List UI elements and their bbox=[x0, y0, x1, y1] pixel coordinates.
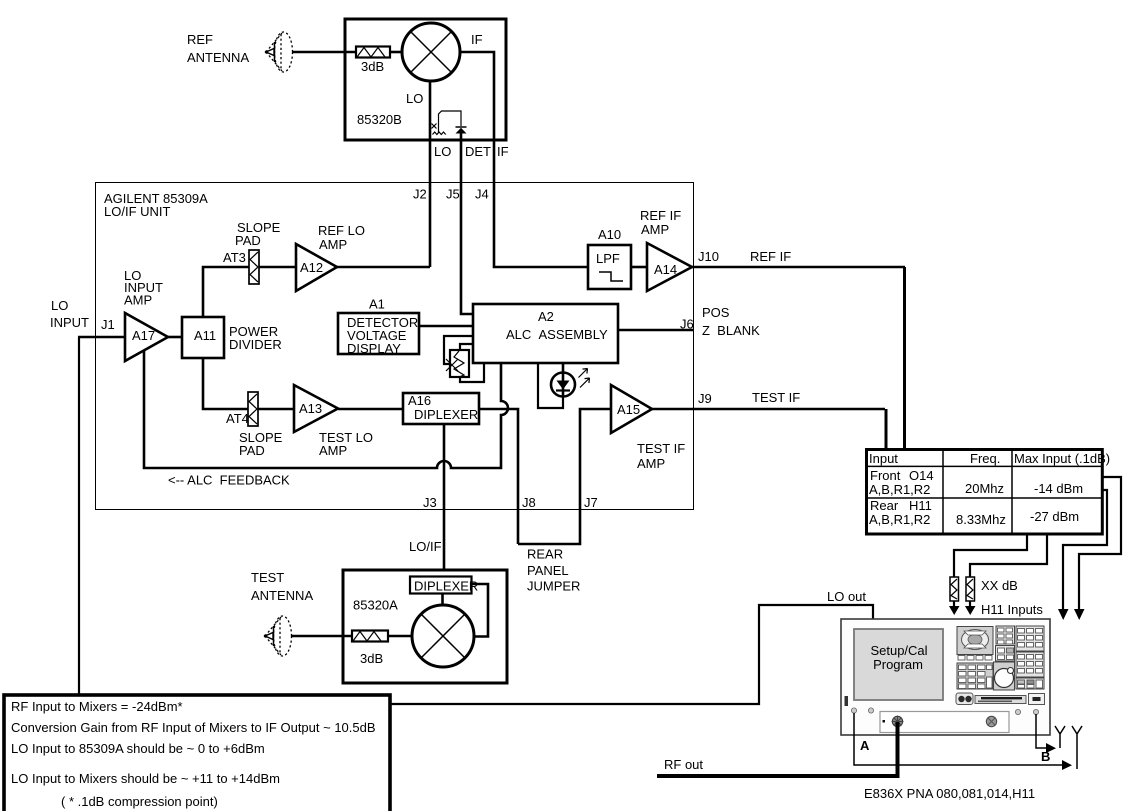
svg-text:TEST: TEST bbox=[251, 570, 284, 585]
label J8 bbox=[522, 495, 536, 510]
antenna TEST bbox=[264, 616, 292, 656]
svg-text:RF out: RF out bbox=[664, 757, 703, 772]
svg-text:REF IF: REF IF bbox=[640, 208, 681, 223]
wire A10 to A14 bbox=[631, 266, 647, 269]
attenuator AT3 slope pad bbox=[249, 250, 259, 284]
label LO/IF bbox=[409, 539, 442, 554]
wire A11 top to AT3 row bbox=[203, 267, 249, 317]
wire AT3 to A12 bbox=[259, 266, 297, 269]
label ALC FEEDBACK bbox=[168, 473, 290, 488]
wire diplexer to mixer (85320A) bbox=[441, 594, 444, 607]
svg-text:LO: LO bbox=[51, 298, 68, 313]
svg-text:REF LO: REF LO bbox=[318, 223, 365, 238]
svg-text:ANTENNA: ANTENNA bbox=[251, 588, 313, 603]
svg-text:PAD: PAD bbox=[235, 233, 261, 248]
svg-text:LO: LO bbox=[406, 91, 423, 106]
wire RF out thick from A port bbox=[657, 722, 898, 776]
svg-text:3dB: 3dB bbox=[360, 651, 383, 666]
wire table right edge upper loop bbox=[1079, 477, 1121, 610]
svg-text:ALC ASSEMBLY: ALC ASSEMBLY bbox=[506, 327, 608, 342]
svg-text:DET: DET bbox=[465, 144, 491, 159]
label E836X PNA options bbox=[864, 786, 1035, 801]
wire TEST IF vertical to table top bbox=[885, 409, 888, 450]
label XX dB bbox=[981, 578, 1018, 593]
svg-text:RF Input to Mixers = -24dBm*: RF Input to Mixers = -24dBm* bbox=[11, 699, 183, 714]
wire REF antenna to 3dB pad bbox=[292, 51, 356, 54]
svg-text:LO Input to Mixers should be ~: LO Input to Mixers should be ~ +11 to +1… bbox=[11, 771, 280, 786]
antenna REF bbox=[265, 32, 293, 72]
wire A11 bottom to AT4 row bbox=[203, 358, 248, 409]
wire REF IF vertical to table top bbox=[903, 267, 906, 450]
svg-text:DIPLEXER: DIPLEXER bbox=[414, 579, 478, 594]
wire J6 pos z blank bbox=[618, 329, 694, 332]
label H11 Inputs bbox=[981, 602, 1043, 617]
svg-text:85320A: 85320A bbox=[353, 598, 398, 613]
svg-text:DIPLEXER: DIPLEXER bbox=[414, 407, 478, 422]
svg-text:A1: A1 bbox=[369, 297, 385, 312]
wire table to right XX dB attenuator bbox=[970, 535, 1047, 577]
wire A2 left to thermistor bbox=[460, 344, 473, 350]
box A10 LPF bbox=[588, 245, 631, 289]
wire A2 bottom LED loop bbox=[538, 363, 563, 408]
label POWER DIVIDER bbox=[229, 324, 282, 352]
svg-text:AMP: AMP bbox=[641, 222, 669, 237]
wire J3 from A16 bottom to 85320A diplexer bbox=[443, 424, 446, 579]
wire 3dB pad to mixer bbox=[390, 51, 403, 54]
wire A12 output to J2 bbox=[334, 266, 430, 269]
svg-text:PANEL: PANEL bbox=[527, 563, 569, 578]
svg-text:( * .1dB compression point): ( * .1dB compression point) bbox=[61, 794, 218, 809]
wire TEST IF output to table bbox=[652, 408, 885, 411]
svg-text:INPUT: INPUT bbox=[50, 315, 89, 330]
svg-text:Z BLANK: Z BLANK bbox=[702, 323, 760, 338]
svg-text:J4: J4 bbox=[475, 187, 489, 202]
arrow down right inner bbox=[1058, 609, 1069, 620]
label POS Z BLANK bbox=[702, 305, 760, 338]
svg-text:A10: A10 bbox=[598, 227, 621, 242]
wire A17 to A11 bbox=[168, 336, 182, 339]
box A11 power divider bbox=[182, 317, 224, 358]
wire J2 LO vertical from mixer to A12 output row bbox=[429, 81, 432, 267]
label 3dB (test) bbox=[360, 651, 383, 666]
op-amp A12 ref LO amp bbox=[296, 244, 337, 291]
wire AT4 to A13 bbox=[258, 408, 294, 411]
svg-text:A: A bbox=[860, 738, 870, 753]
svg-text:IF: IF bbox=[497, 144, 509, 159]
svg-text:LO/IF UNIT: LO/IF UNIT bbox=[104, 204, 171, 219]
svg-text:IF: IF bbox=[471, 32, 483, 47]
wire TEST antenna to 3dB pad bbox=[291, 635, 352, 638]
svg-text:J5: J5 bbox=[446, 187, 460, 202]
svg-text:REAR: REAR bbox=[527, 547, 563, 562]
svg-text:A,B,R1,R2: A,B,R1,R2 bbox=[869, 482, 930, 497]
box 85320B ref mixer module bbox=[345, 19, 506, 140]
svg-text:J6: J6 bbox=[680, 317, 694, 332]
wire LO out path from PNA to J1 input bbox=[79, 337, 873, 704]
svg-text:Max Input (.1dB): Max Input (.1dB) bbox=[1014, 451, 1110, 466]
detector in 85320B bbox=[432, 111, 467, 135]
wire LED top stem bbox=[562, 363, 565, 396]
svg-text:85320B: 85320B bbox=[357, 112, 402, 127]
svg-text:LO/IF: LO/IF bbox=[409, 539, 442, 554]
arrow left attenuator down bbox=[949, 601, 960, 615]
label J10 bbox=[698, 249, 719, 264]
wire ALC feedback from A2 bottom to A17 bbox=[144, 351, 508, 468]
label A1 bbox=[369, 297, 385, 312]
svg-text:J3: J3 bbox=[423, 495, 437, 510]
wire A16 output to J8 corner bbox=[479, 409, 518, 544]
wire table to left XX dB attenuator bbox=[954, 535, 1027, 577]
wire J5 DET vertical from detector to A2 bbox=[461, 133, 473, 314]
svg-text:Conversion Gain from RF Input: Conversion Gain from RF Input of Mixers … bbox=[11, 720, 376, 735]
svg-text:LPF: LPF bbox=[596, 251, 620, 266]
svg-text:A2: A2 bbox=[538, 309, 554, 324]
attenuator AT4 slope pad bbox=[248, 392, 258, 426]
label LO INPUT AMP bbox=[124, 268, 163, 308]
svg-text:Setup/Cal: Setup/Cal bbox=[870, 643, 927, 658]
label LO (mixer) bbox=[406, 91, 423, 106]
svg-text:-14 dBm: -14 dBm bbox=[1034, 481, 1083, 496]
antenna small Y (A) bbox=[1072, 726, 1082, 769]
svg-text:TEST IF: TEST IF bbox=[752, 390, 800, 405]
svg-text:3dB: 3dB bbox=[361, 59, 384, 74]
wire rear panel jumper bottom bbox=[518, 409, 611, 544]
label J2 J5 J4 bbox=[413, 187, 489, 202]
attenuator 3dB (ref) bbox=[356, 47, 390, 58]
box DIPLEXER in 85320A bbox=[410, 577, 478, 594]
wire 3dB to mixer (85320A) bbox=[388, 635, 412, 638]
label J1 bbox=[101, 317, 115, 332]
svg-text:Rear: Rear bbox=[870, 498, 899, 513]
label AT3 bbox=[223, 250, 246, 265]
wire A receiver line to antenna arrow bbox=[854, 713, 1072, 770]
svg-text:Input: Input bbox=[869, 451, 898, 466]
instrument E836X PNA front panel bbox=[841, 619, 1050, 735]
label TEST IF (line) bbox=[752, 390, 800, 405]
label REAR PANEL JUMPER bbox=[527, 547, 580, 594]
label J6 bbox=[680, 317, 694, 332]
box A1 detector voltage display bbox=[338, 313, 419, 356]
svg-text:AMP: AMP bbox=[319, 443, 347, 458]
svg-text:AT3: AT3 bbox=[223, 250, 246, 265]
label J7 bbox=[584, 495, 598, 510]
svg-text:A12: A12 bbox=[300, 260, 323, 275]
svg-text:Freq.: Freq. bbox=[970, 451, 1000, 466]
label TEST LO AMP bbox=[319, 430, 373, 458]
op-amp A13 test LO amp bbox=[294, 385, 338, 432]
svg-text:J9: J9 bbox=[698, 391, 712, 406]
wire A13 to A16 bbox=[338, 408, 403, 411]
svg-text:J10: J10 bbox=[698, 249, 719, 264]
label J3 bbox=[423, 495, 437, 510]
label AGILENT 85309A LO/IF UNIT bbox=[104, 191, 208, 219]
svg-text:TEST IF: TEST IF bbox=[637, 441, 685, 456]
label 3dB (ref) bbox=[361, 59, 384, 74]
label REF ANTENNA bbox=[187, 32, 249, 65]
svg-text:A15: A15 bbox=[617, 402, 640, 417]
svg-text:J2: J2 bbox=[413, 187, 427, 202]
wire LO input to A17 bbox=[78, 336, 125, 339]
antenna small Y (B) bbox=[1055, 726, 1065, 748]
svg-text:-27 dBm: -27 dBm bbox=[1030, 509, 1079, 524]
label 85320B bbox=[357, 112, 402, 127]
svg-text:AMP: AMP bbox=[124, 293, 152, 308]
svg-text:DIVIDER: DIVIDER bbox=[229, 337, 282, 352]
svg-text:POS: POS bbox=[702, 305, 730, 320]
label SLOPE PAD (top) bbox=[235, 220, 281, 248]
label B (port) bbox=[1041, 749, 1050, 764]
wire IF from mixer to J4 vertical down to REF IF row bbox=[460, 52, 588, 267]
svg-text:PAD: PAD bbox=[239, 443, 265, 458]
label LO DET IF under 85320B bbox=[434, 144, 509, 159]
op-amp A17 LO input amp bbox=[125, 313, 168, 361]
wire B port to antenna arrow bbox=[1036, 714, 1056, 753]
attenuator XX dB left bbox=[950, 577, 959, 601]
arrow down right outer bbox=[1074, 609, 1085, 620]
svg-text:A13: A13 bbox=[299, 401, 322, 416]
svg-text:J1: J1 bbox=[101, 317, 115, 332]
svg-text:REF: REF bbox=[187, 32, 213, 47]
svg-text:A11: A11 bbox=[194, 328, 216, 343]
label RF out bbox=[664, 757, 703, 772]
svg-text:LO out: LO out bbox=[827, 589, 866, 604]
box A2 ALC assembly bbox=[473, 304, 618, 363]
box AGILENT 85309A LO/IF UNIT bbox=[96, 183, 694, 510]
svg-text:LO: LO bbox=[434, 144, 451, 159]
label REF IF bbox=[750, 249, 791, 264]
svg-text:AT4: AT4 bbox=[226, 411, 249, 426]
wire A2 left to thermistor top bbox=[444, 336, 473, 364]
label A10 bbox=[598, 227, 621, 242]
label IF (mixer) bbox=[471, 32, 483, 47]
wire thermistor bottom to A2 bottom bbox=[460, 363, 484, 382]
wire table right edge lower loop bbox=[1063, 490, 1107, 610]
note box bbox=[4, 695, 390, 811]
wire REF IF output to table bbox=[692, 266, 905, 269]
box 85320A test mixer module bbox=[343, 570, 507, 683]
svg-text:ANTENNA: ANTENNA bbox=[187, 50, 249, 65]
svg-text:A,B,R1,R2: A,B,R1,R2 bbox=[869, 512, 930, 527]
label REF IF AMP bbox=[640, 208, 681, 237]
label A (port) bbox=[860, 738, 870, 753]
arrow right attenuator down bbox=[965, 601, 976, 615]
svg-text:A14: A14 bbox=[654, 262, 677, 277]
label TEST IF AMP (under A15) bbox=[637, 441, 685, 471]
label 85320A bbox=[353, 598, 398, 613]
box A16 diplexer bbox=[403, 393, 479, 424]
svg-text:8.33Mhz: 8.33Mhz bbox=[956, 512, 1006, 527]
thermistor AT near A2 bbox=[446, 350, 469, 377]
table input freq max input bbox=[866, 449, 1110, 534]
svg-text:J8: J8 bbox=[522, 495, 536, 510]
svg-text:J7: J7 bbox=[584, 495, 598, 510]
svg-text:Program: Program bbox=[873, 657, 923, 672]
svg-text:A16: A16 bbox=[408, 393, 431, 408]
attenuator 3dB (test) bbox=[352, 631, 388, 642]
svg-text:AMP: AMP bbox=[637, 456, 665, 471]
mixer circle 85320A bbox=[412, 605, 474, 667]
wire A1 to A2 bbox=[419, 325, 473, 328]
svg-text:20Mhz: 20Mhz bbox=[965, 481, 1004, 496]
attenuator XX dB right bbox=[966, 577, 975, 601]
svg-text:DISPLAY: DISPLAY bbox=[347, 341, 401, 356]
label LO out bbox=[827, 589, 866, 604]
svg-text:O14: O14 bbox=[909, 468, 934, 483]
svg-text:Front: Front bbox=[870, 468, 901, 483]
svg-text:LO Input to 85309A should be ~: LO Input to 85309A should be ~ 0 to +6dB… bbox=[11, 741, 265, 756]
label REF LO AMP bbox=[318, 223, 365, 252]
svg-text:JUMPER: JUMPER bbox=[527, 579, 580, 594]
op-amp A15 test IF amp bbox=[611, 385, 652, 433]
mixer circle 85320B bbox=[402, 23, 460, 81]
svg-text:E836X PNA 080,081,014,H11: E836X PNA 080,081,014,H11 bbox=[864, 786, 1035, 801]
label AT4 bbox=[226, 411, 249, 426]
svg-text:H11: H11 bbox=[909, 498, 932, 513]
label J9 bbox=[698, 391, 712, 406]
wire diplexer right loop to mixer bbox=[471, 584, 488, 637]
svg-text:A17: A17 bbox=[132, 328, 155, 343]
svg-text:AMP: AMP bbox=[319, 237, 347, 252]
LED indicator on A2 bbox=[551, 369, 590, 397]
label LO INPUT bbox=[50, 298, 89, 330]
svg-text:H11 Inputs: H11 Inputs bbox=[981, 602, 1043, 617]
label TEST ANTENNA bbox=[251, 570, 313, 603]
svg-text:<-- ALC FEEDBACK: <-- ALC FEEDBACK bbox=[168, 473, 290, 488]
svg-text:REF IF: REF IF bbox=[750, 249, 791, 264]
svg-text:XX dB: XX dB bbox=[981, 578, 1018, 593]
op-amp A14 ref IF amp bbox=[647, 243, 692, 291]
label SLOPE PAD (bottom) bbox=[239, 430, 283, 458]
